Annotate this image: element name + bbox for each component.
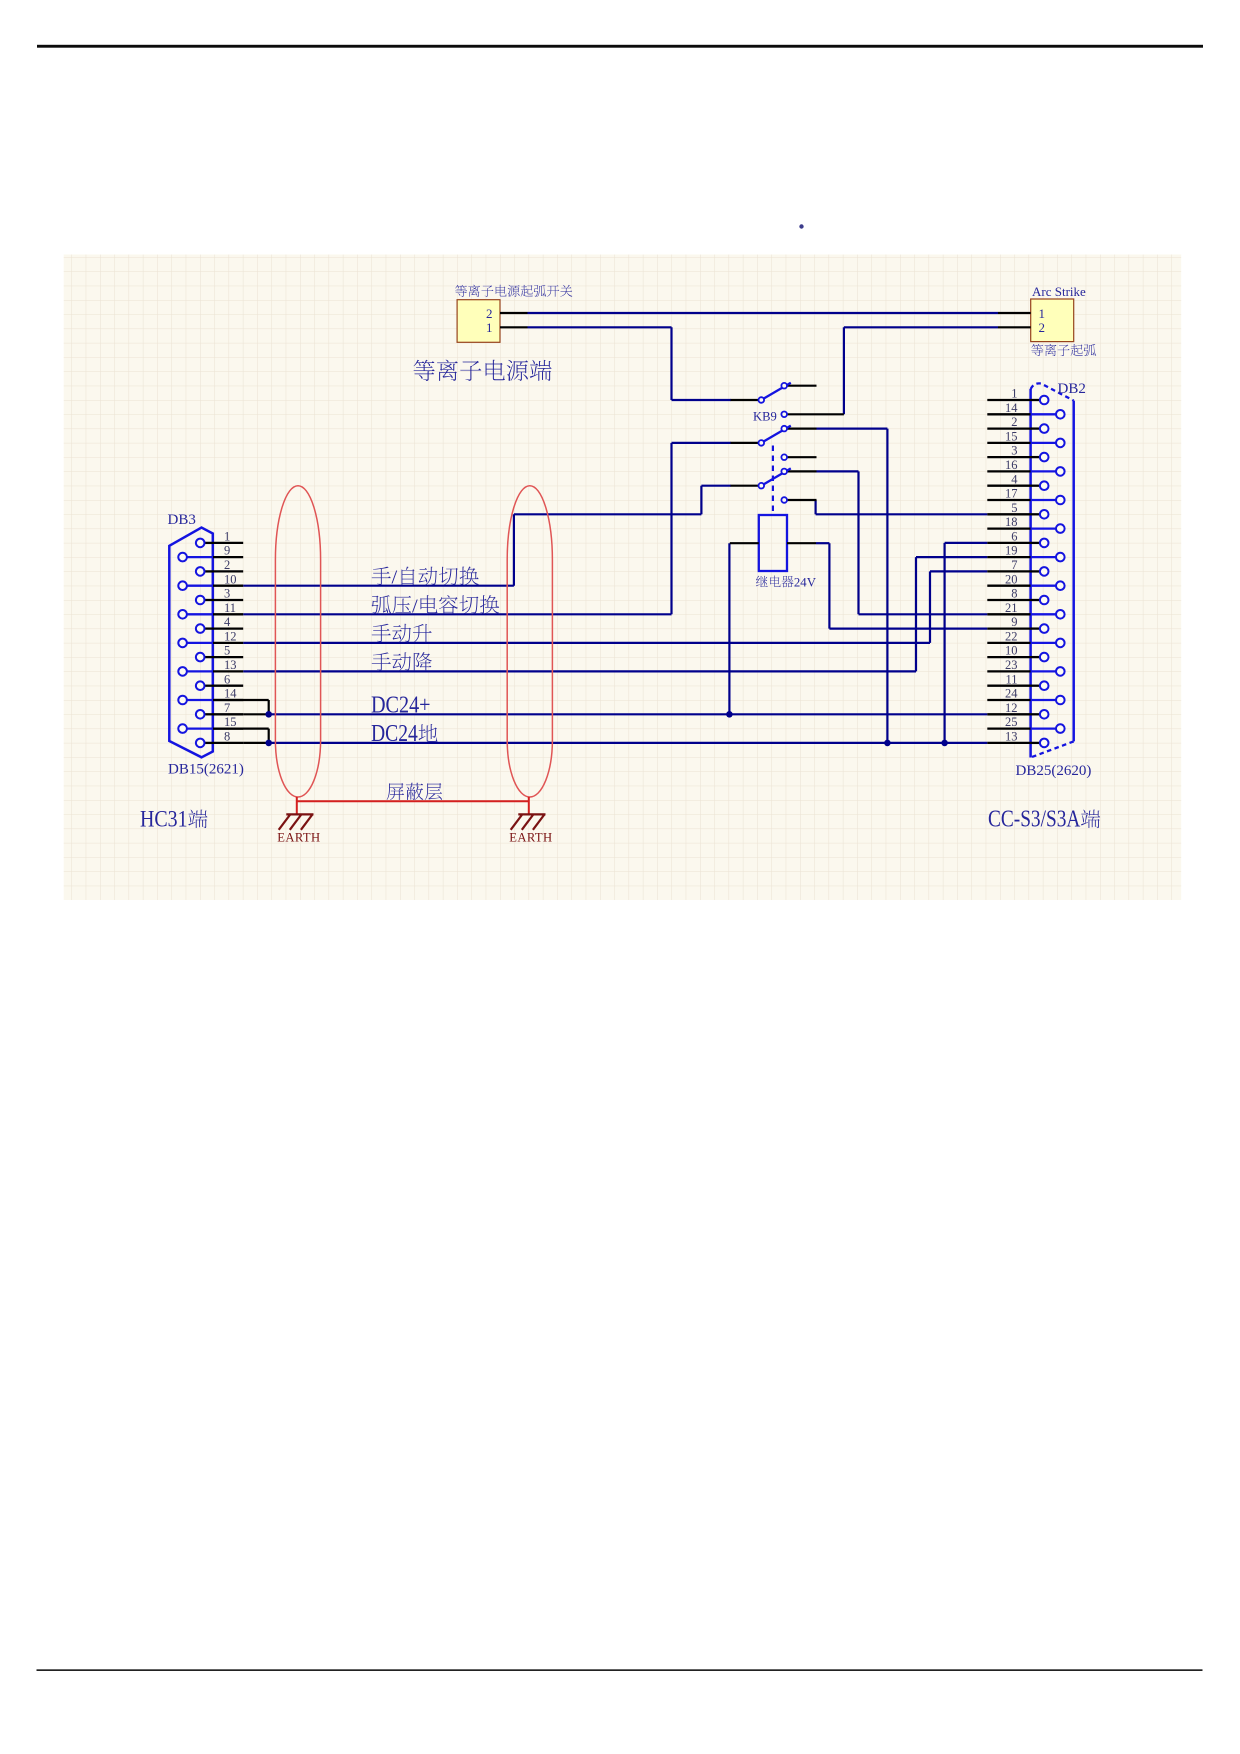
schematic sheet background [64, 255, 1182, 901]
component: relay coil 24V [759, 515, 787, 571]
pin 2 stub [500, 312, 528, 314]
DB25 pin 10 [987, 656, 1030, 658]
DB15 pin 12 [213, 642, 243, 644]
pin 1 stub [500, 326, 528, 328]
wire: plasma switch pin1 to KB9 contact1 common [528, 326, 672, 328]
label: plasma power arc strike switch [455, 285, 572, 297]
svg-text:KB9: KB9 [753, 410, 777, 424]
svg-text:4: 4 [224, 615, 231, 629]
svg-text:15: 15 [1005, 430, 1018, 444]
wire: relay coil left pin to DC24+ [728, 543, 730, 714]
wire: DB15 pin13 (manual down) to DB25 pin19 [243, 670, 916, 672]
DB25 pin 16 [987, 470, 1030, 472]
connector DB3 / DB15(2621) body [169, 528, 213, 758]
top rule [37, 45, 1203, 48]
svg-text:12: 12 [1005, 701, 1018, 715]
junction [265, 740, 272, 747]
wire: DC24+ net DB15 pin7 to DB25 pin12 [243, 713, 269, 715]
svg-text:21: 21 [1005, 601, 1018, 615]
DB25 pin 4 [987, 485, 1030, 487]
DB15 pin 3 [213, 599, 243, 601]
shield bus wire [297, 800, 529, 802]
label: plasma power supply side [414, 360, 552, 381]
svg-text:2: 2 [1011, 415, 1017, 429]
svg-text:6: 6 [224, 672, 230, 686]
DB25 pin 24 [987, 699, 1030, 701]
svg-text:22: 22 [1005, 630, 1018, 644]
wire: KB9 contact3 upper throw to DB25 pin21 [817, 470, 859, 472]
connector DB2 / DB25(2620) body [1029, 389, 1032, 758]
earth symbol at x=528.8 [518, 813, 545, 815]
wire: DB15 pin12 (manual up) to DB25 pin7 [243, 642, 930, 644]
DB15 pin 2 [213, 570, 243, 572]
coil left pin [730, 542, 759, 544]
svg-text:8: 8 [224, 730, 230, 744]
DB15 pin 9 [213, 556, 243, 558]
svg-text:13: 13 [1005, 730, 1018, 744]
DB15 pin 11 [213, 613, 243, 615]
svg-text:1: 1 [1011, 387, 1017, 401]
svg-text:11: 11 [224, 601, 236, 615]
net label: manual up [372, 624, 432, 643]
DB25 pin 21 [987, 613, 1030, 615]
DB25 pin 7 [987, 570, 1030, 572]
net label: DC24+ [371, 693, 431, 719]
wire: DB15 pin14 strap to pin7 row [213, 699, 269, 701]
DB25 pin 14 [987, 413, 1030, 415]
label: plasma arc strike [1031, 344, 1096, 356]
svg-text:5: 5 [224, 644, 230, 658]
svg-text:CC-S3/S3A: CC-S3/S3A [988, 807, 1081, 833]
relay KB9 contact1 [731, 399, 759, 401]
svg-text:25: 25 [1005, 715, 1018, 729]
DB25 pin 8 [987, 599, 1030, 601]
svg-text:1: 1 [1039, 306, 1046, 321]
wire: KB9 contact2 upper throw to DC24-ground net [817, 428, 888, 430]
cable shield capsule left [275, 486, 320, 797]
svg-text:3: 3 [1011, 444, 1017, 458]
svg-text:2: 2 [1039, 320, 1046, 335]
DB15 pin 6 [213, 685, 243, 687]
net label: arc voltage/capacitor switch [372, 595, 500, 617]
svg-text:24V: 24V [794, 575, 817, 589]
component: plasma power arc-strike switch box [457, 300, 500, 343]
svg-text:HC31: HC31 [140, 807, 188, 832]
pin 2 stub [998, 326, 1031, 328]
DB25 pin 12 [987, 713, 1030, 715]
DB15 pin 7 [213, 713, 243, 715]
svg-text:18: 18 [1005, 515, 1018, 529]
svg-text:10: 10 [1005, 644, 1018, 658]
wire: DB25 pin6 to DC24-ground net [945, 542, 988, 544]
net label: manual/auto switch [372, 567, 479, 589]
svg-text:9: 9 [224, 544, 230, 558]
svg-text:1: 1 [224, 530, 230, 544]
svg-text:DC24+: DC24+ [371, 693, 431, 719]
net label: DC24 ground [371, 721, 438, 747]
DB15 pin 13 [213, 670, 243, 672]
DB25 pin 13 [987, 742, 1030, 744]
DB25 pin 25 [987, 727, 1030, 729]
DB25 pin 1 [987, 399, 1030, 401]
svg-text:12: 12 [224, 630, 237, 644]
DB25 pin 17 [987, 499, 1030, 501]
svg-text:EARTH: EARTH [509, 831, 552, 845]
pin 1 stub [998, 312, 1031, 314]
label: relay 24V [756, 575, 817, 589]
svg-text:11: 11 [1005, 672, 1017, 686]
svg-text:EARTH: EARTH [277, 831, 320, 845]
svg-text:14: 14 [224, 687, 237, 701]
wire: Arc Strike pin2 to KB9 contact1 lower throw [844, 326, 998, 328]
earth symbol at x=296.8 [286, 813, 313, 815]
cable shield capsule right [507, 486, 552, 797]
wire: DB15 pin15 strap to pin8 row [213, 727, 269, 729]
svg-text:2: 2 [486, 306, 493, 321]
DB15 pin 15 [213, 727, 243, 729]
svg-text:8: 8 [1011, 587, 1017, 601]
mechanical link dashed [772, 446, 774, 514]
DB25 pin 15 [987, 442, 1030, 444]
svg-text:3: 3 [224, 587, 230, 601]
DB25 pin 20 [987, 585, 1030, 587]
svg-text:9: 9 [1011, 615, 1017, 629]
svg-text:14: 14 [1005, 401, 1018, 415]
DB15 pin 14 [213, 699, 243, 701]
svg-text:7: 7 [224, 701, 230, 715]
svg-text:24: 24 [1005, 687, 1018, 701]
DB25 pin 18 [987, 527, 1030, 529]
svg-text:DB3: DB3 [168, 512, 196, 528]
svg-text:7: 7 [1011, 558, 1017, 572]
svg-text:10: 10 [224, 572, 237, 586]
junction [884, 740, 891, 747]
svg-text:23: 23 [1005, 658, 1018, 672]
wire: DB15 pin10 (manual/auto) to KB9 contact3 common [243, 585, 514, 587]
DB15 pin 8 [213, 742, 243, 744]
svg-text:5: 5 [1011, 501, 1017, 515]
DB25 pin 22 [987, 642, 1030, 644]
svg-text:Arc Strike: Arc Strike [1032, 284, 1086, 299]
svg-text:DB25(2620): DB25(2620) [1016, 763, 1092, 779]
DB15 pin 4 [213, 627, 243, 629]
DB15 pin 1 [213, 542, 243, 544]
wire: relay coil right pin to DB25 pin9 [816, 542, 829, 544]
DB15 pin 5 [213, 656, 243, 658]
title: HC31 side [140, 807, 207, 832]
DB25 pin 6 [987, 542, 1030, 544]
DB15 pin 10 [213, 585, 243, 587]
bottom rule [37, 1669, 1203, 1671]
DB25 pin 9 [987, 627, 1030, 629]
svg-text:2: 2 [224, 558, 230, 572]
svg-text:DC24: DC24 [371, 721, 418, 747]
DB25 pin 3 [987, 456, 1030, 458]
svg-text:15: 15 [224, 715, 237, 729]
svg-text:16: 16 [1005, 458, 1018, 472]
wire: plasma switch pin2 to Arc Strike pin1 [528, 312, 999, 314]
svg-text:17: 17 [1005, 487, 1018, 501]
wire: DC24-ground net DB15 pin8 to DB25 pin13 [243, 742, 269, 744]
svg-text:6: 6 [1011, 530, 1017, 544]
svg-text:4: 4 [1011, 472, 1018, 486]
svg-text:/: / [392, 567, 398, 589]
svg-text:13: 13 [224, 658, 237, 672]
svg-text:1: 1 [486, 320, 493, 335]
DB25 pin 19 [987, 556, 1030, 558]
svg-text:DB2: DB2 [1058, 381, 1086, 397]
component: Arc Strike box [1031, 299, 1074, 342]
title: CC-S3/S3A side [988, 807, 1100, 833]
DB25 pin 23 [987, 670, 1030, 672]
junction [726, 711, 733, 718]
stray mark [799, 224, 803, 228]
net label: manual down [372, 652, 432, 671]
DB25 pin 2 [987, 427, 1030, 429]
DB25 pin 5 [987, 513, 1030, 515]
svg-text:/: / [412, 595, 418, 617]
wire: DB15 pin11 (arc-voltage/capacitor) to KB9 contact2 common [243, 613, 671, 615]
relay KB9 contact3 [731, 485, 759, 487]
wire: KB9 contact3 lower throw to DB25 pin5 [814, 500, 816, 514]
label: shield layer [387, 783, 442, 800]
svg-text:19: 19 [1005, 544, 1018, 558]
svg-text:DB15(2621): DB15(2621) [168, 762, 244, 778]
relay KB9 contact2 [731, 442, 759, 444]
DB25 pin 11 [987, 685, 1030, 687]
svg-text:20: 20 [1005, 572, 1018, 586]
junction [265, 711, 272, 718]
coil right pin [787, 542, 816, 544]
junction [941, 740, 948, 747]
